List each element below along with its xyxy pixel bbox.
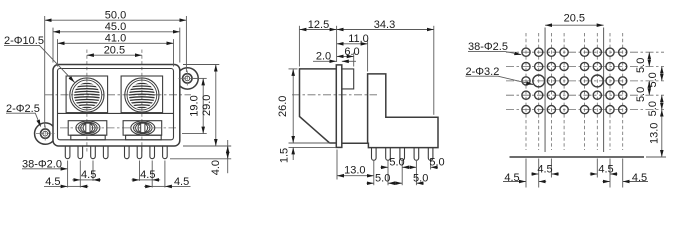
dimension 26.0 side height	[277, 69, 330, 143]
label 2-Φ10.5 with leader	[4, 35, 75, 83]
node RCA axis lines bottom view	[545, 28, 604, 153]
svg-text:2.0: 2.0	[316, 51, 331, 63]
svg-text:4.5: 4.5	[140, 169, 155, 181]
dimension 4.5 pins 7-8	[144, 176, 190, 188]
dimension 5.0 side pins 4-5	[409, 156, 444, 168]
label 2-Φ2.5 with leader	[6, 103, 41, 127]
side view rear housing stepped body	[342, 74, 438, 148]
dimension 5.0 side pins 1-2	[367, 172, 396, 184]
dimension 34.3	[337, 19, 434, 115]
svg-text:5.0: 5.0	[413, 172, 428, 184]
label 38-Φ2.5 with leader	[468, 41, 521, 55]
node center-axis vertical right socket	[141, 50, 143, 153]
svg-text:1.5: 1.5	[278, 148, 290, 163]
holes grid 38-Φ2.5	[522, 48, 627, 114]
svg-text:5.0: 5.0	[389, 156, 404, 168]
svg-text:13.0: 13.0	[649, 123, 661, 144]
node hole-grid row center lines	[506, 52, 664, 109]
node center-axis horizontal lower connectors	[60, 127, 176, 129]
dimension 5.0 side pins 3-4	[395, 172, 428, 184]
AV connector lower-left	[68, 121, 107, 135]
body inner face front view	[58, 69, 174, 140]
dimension 5.0 rows 4-5	[647, 95, 662, 116]
svg-text:20.5: 20.5	[104, 45, 125, 57]
dimension 5.0 side pins 2-3	[381, 156, 410, 168]
dimension 2.0 flange thickness	[313, 51, 356, 63]
svg-text:41.0: 41.0	[105, 33, 126, 45]
svg-text:4.5: 4.5	[598, 163, 613, 175]
svg-text:13.0: 13.0	[344, 165, 365, 177]
svg-text:5.0: 5.0	[429, 156, 444, 168]
svg-text:19.0: 19.0	[189, 95, 201, 116]
column extension lines below board edge	[526, 159, 623, 188]
board front edge line	[510, 156, 645, 158]
side view top lug (6.0)	[342, 69, 354, 89]
pins side view (5)	[372, 148, 377, 161]
svg-text:45.0: 45.0	[105, 21, 126, 33]
dimension 20.5 front view	[87, 45, 142, 57]
node center-axis side view	[292, 94, 377, 96]
dimension 4.5 pins 2-3	[72, 169, 101, 181]
svg-text:11.0: 11.0	[348, 33, 369, 45]
tray lower-left	[71, 135, 105, 140]
dimension 50.0	[45, 10, 187, 128]
dimension 45.0	[53, 21, 180, 62]
pin extension lines side view	[374, 161, 431, 185]
side view mounting flange plate (2.0)	[336, 65, 342, 147]
RCA socket right (Φ10.5)	[121, 76, 163, 113]
svg-text:4.5: 4.5	[81, 169, 96, 181]
dimension 4.5 pins 6-7	[132, 169, 161, 181]
dimension 11.0	[337, 33, 369, 71]
AV connector lower-right	[123, 121, 162, 135]
side view front barrel block	[300, 69, 337, 143]
svg-text:6.0: 6.0	[344, 46, 359, 58]
dimension 4.5 cols 2-3	[531, 163, 559, 175]
label 2-Φ3.2 with leader	[466, 66, 534, 85]
svg-text:20.5: 20.5	[564, 13, 585, 25]
svg-text:50.0: 50.0	[105, 10, 126, 22]
mounting ear bottom-left	[35, 123, 53, 144]
dimension 4.5 cols 6-7	[590, 163, 618, 175]
svg-text:4.5: 4.5	[537, 163, 552, 175]
pin extension lines front view	[68, 161, 165, 188]
pins front view (8 of Φ2.0)	[65, 146, 70, 159]
label 38-Φ2.0 with leader to pin 1	[22, 159, 68, 171]
dimension 19.0 vertical	[182, 78, 207, 133]
dimension 12.5	[299, 19, 336, 67]
mounting ear hole bottom-left (2-Φ2.5)	[36, 126, 55, 142]
svg-text:4.0: 4.0	[210, 160, 222, 175]
svg-text:12.5: 12.5	[308, 19, 329, 31]
svg-text:4.5: 4.5	[504, 172, 519, 184]
dimension 4.5 pins 1-2	[44, 176, 88, 188]
svg-text:4.5: 4.5	[632, 172, 647, 184]
dimension 5.0 rows 3-4	[635, 81, 650, 102]
body outer shell front view	[53, 65, 180, 147]
svg-text:26.0: 26.0	[277, 96, 289, 117]
svg-text:29.0: 29.0	[201, 95, 213, 116]
mounting ear hole top-right (2-Φ2.5)	[179, 71, 197, 87]
tray lower-right	[126, 135, 162, 140]
svg-text:4.5: 4.5	[45, 176, 60, 188]
dimension 4.5 cols 7-8	[603, 172, 649, 184]
dimension 29.0 vertical	[183, 65, 231, 147]
svg-text:5.0: 5.0	[635, 87, 647, 102]
dimension 5.0 rows 2-3	[647, 67, 662, 88]
node center-axis horizontal upper sockets	[45, 94, 191, 96]
svg-text:5.0: 5.0	[635, 58, 647, 73]
svg-text:34.3: 34.3	[374, 19, 395, 31]
dimension 4.0 pin length	[170, 140, 231, 175]
dimension 4.5 cols 1-2	[503, 172, 546, 184]
RCA socket left (Φ10.5)	[66, 76, 108, 113]
dimension 1.5 flange lip	[278, 147, 336, 163]
dimension 6.0	[337, 46, 360, 67]
svg-text:4.5: 4.5	[174, 176, 189, 188]
svg-text:5.0: 5.0	[375, 172, 390, 184]
dimension 5.0 rows 1-2	[635, 52, 650, 73]
svg-text:5.0: 5.0	[647, 101, 659, 116]
node center-axis vertical left socket	[86, 50, 88, 153]
dimension 13.0 bottom view	[646, 110, 666, 157]
node hole-grid column center lines	[526, 33, 623, 150]
dimension 41.0	[58, 33, 174, 67]
dimension 13.0 side view	[337, 150, 374, 180]
dimension 20.5 bottom view	[545, 13, 604, 26]
body mid shelf line	[58, 112, 174, 114]
mounting ear top-right	[180, 68, 198, 89]
holes 2-Φ3.2	[533, 75, 603, 87]
